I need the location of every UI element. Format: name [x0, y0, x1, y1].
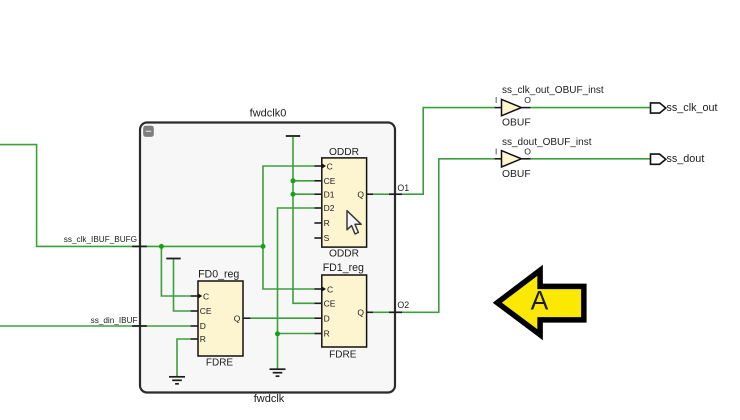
output port ss_dout: [651, 153, 705, 165]
svg-text:D2: D2: [324, 203, 335, 213]
svg-text:D1: D1: [324, 189, 335, 199]
net O1 wire ODDR Q to OBUF1: [373, 108, 495, 195]
svg-text:S: S: [324, 233, 330, 243]
cell FD1_reg: [314, 262, 373, 361]
module fwdclk0 boundary: [140, 123, 395, 393]
wire OBUF1 output to port ss_clk_out: [531, 107, 651, 109]
svg-text:FDRE: FDRE: [206, 358, 234, 369]
power tie VCC for FD0 CE: [166, 259, 190, 312]
svg-text:ss_clk_out_OBUF_inst: ss_clk_out_OBUF_inst: [502, 85, 604, 96]
power tie VCC for ODDR CE/D1 and FD1 CE: [286, 136, 315, 303]
svg-text:ss_clk_IBUF_BUFG: ss_clk_IBUF_BUFG: [64, 235, 137, 244]
svg-text:O: O: [524, 146, 531, 156]
wire FD0 R to ground: [177, 339, 191, 376]
net ss_din_IBUF wire: [0, 325, 191, 327]
annotation arrow A: [497, 270, 584, 334]
svg-text:ss_dout_OBUF_inst: ss_dout_OBUF_inst: [502, 137, 592, 148]
wire ODDR D2 / FD1 R to ground: [278, 208, 315, 369]
junction on ss_clk_IBUF_BUFG at FD0 branch: [159, 244, 164, 249]
svg-text:CE: CE: [324, 299, 336, 309]
junction VCC at ODDR CE: [291, 178, 296, 183]
ground symbol under FD0: [169, 377, 185, 384]
svg-text:ODDR: ODDR: [329, 248, 359, 259]
svg-text:Q: Q: [357, 308, 364, 318]
collapse icon: [144, 126, 154, 137]
svg-text:CE: CE: [200, 306, 212, 316]
svg-text:FD0_reg: FD0_reg: [198, 268, 239, 280]
junction VCC at ODDR D1: [291, 192, 296, 197]
wire VCC to ODDR D1: [293, 193, 314, 195]
svg-text:ss_clk_out: ss_clk_out: [667, 102, 718, 114]
svg-text:I: I: [495, 96, 497, 105]
svg-text:OBUF: OBUF: [502, 117, 531, 128]
buffer U ss_dout_OBUF_inst: [495, 137, 592, 180]
svg-text:C: C: [327, 284, 333, 294]
junction at FD1 R branch: [275, 331, 280, 336]
svg-text:Q: Q: [234, 313, 241, 323]
wire VCC to ODDR CE: [293, 180, 314, 182]
svg-text:Q: Q: [357, 189, 364, 199]
svg-text:O1: O1: [397, 183, 409, 193]
svg-text:ODDR: ODDR: [329, 147, 359, 158]
svg-text:CE: CE: [324, 176, 336, 186]
svg-text:fwdclk0: fwdclk0: [250, 108, 287, 120]
svg-text:C: C: [327, 161, 333, 171]
svg-text:O2: O2: [397, 300, 409, 310]
buffer U ss_clk_out_OBUF_inst: [495, 85, 604, 128]
svg-text:R: R: [324, 329, 330, 339]
ground symbol under ODDR: [270, 369, 286, 376]
svg-text:FDRE: FDRE: [329, 350, 357, 361]
svg-text:O: O: [524, 95, 531, 105]
cell ODDR: [314, 147, 373, 259]
net ss_clk_IBUF_BUFG wire: [0, 145, 263, 247]
output port ss_clk_out: [651, 102, 718, 114]
svg-text:A: A: [531, 285, 549, 315]
svg-text:fwdclk: fwdclk: [254, 393, 285, 405]
svg-text:D: D: [200, 321, 206, 331]
svg-text:D: D: [324, 313, 330, 323]
junction on ss_clk_IBUF_BUFG at ODDR/FD1 branch: [261, 244, 266, 249]
net O2 wire FD1 Q to OBUF2: [373, 159, 495, 312]
svg-text:I: I: [495, 147, 497, 156]
svg-text:C: C: [203, 291, 209, 301]
wire FD0 Q to FD1 D: [250, 317, 314, 319]
cell FD0_reg: [191, 268, 251, 368]
wire clk vertical to ODDR C and FD1 C: [263, 166, 314, 289]
svg-text:OBUF: OBUF: [502, 169, 531, 180]
svg-text:ss_dout: ss_dout: [667, 153, 705, 165]
wire clk to FD0 C: [161, 246, 190, 296]
svg-text:R: R: [200, 334, 206, 344]
wire OBUF2 output to port ss_dout: [531, 158, 651, 160]
svg-text:FD1_reg: FD1_reg: [323, 262, 364, 274]
svg-text:R: R: [324, 218, 330, 228]
mouse cursor: [347, 211, 361, 234]
svg-text:ss_din_IBUF: ss_din_IBUF: [91, 316, 138, 325]
